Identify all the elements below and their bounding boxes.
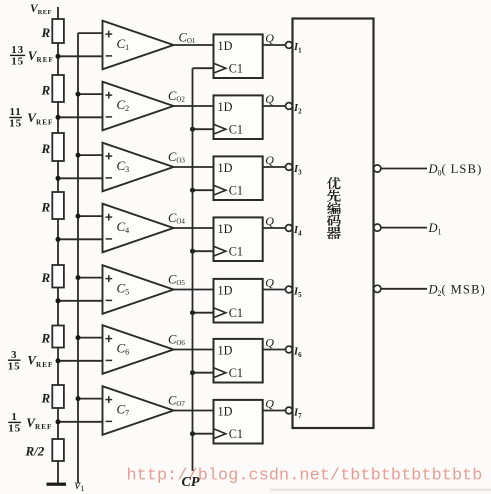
svg-text:CP: CP (182, 475, 200, 490)
svg-text:Q: Q (265, 31, 274, 45)
svg-text:15: 15 (11, 56, 24, 68)
svg-text:http://blog.csdn.net/tbtbtbtbt: http://blog.csdn.net/tbtbtbtbtbtbtb (127, 467, 483, 486)
svg-text:Q: Q (265, 214, 274, 228)
svg-text:C1: C1 (229, 123, 243, 137)
svg-text:R: R (41, 390, 51, 405)
svg-text:R: R (41, 25, 51, 40)
svg-text:D2( MSB): D2( MSB) (428, 282, 486, 298)
svg-text:C1: C1 (229, 366, 243, 380)
svg-text:1D: 1D (218, 404, 233, 418)
svg-text:15: 15 (9, 118, 22, 130)
svg-text:Q: Q (265, 276, 274, 290)
svg-text:Q: Q (265, 336, 274, 350)
svg-text:Q: Q (265, 397, 274, 411)
svg-text:C1: C1 (229, 62, 243, 76)
svg-text:1: 1 (11, 411, 17, 423)
svg-text:11: 11 (9, 106, 21, 118)
svg-text:R: R (41, 330, 51, 345)
svg-text:1D: 1D (218, 39, 233, 53)
svg-text:C1: C1 (229, 427, 243, 441)
svg-text:Q: Q (265, 153, 274, 167)
svg-text:R: R (41, 199, 51, 214)
svg-text:1D: 1D (218, 343, 233, 357)
svg-text:C1: C1 (229, 245, 243, 259)
svg-text:D0( LSB): D0( LSB) (428, 162, 483, 178)
svg-text:1D: 1D (218, 161, 233, 175)
svg-text:C1: C1 (229, 184, 243, 198)
svg-text:1D: 1D (218, 283, 233, 297)
svg-text:Q: Q (265, 92, 274, 106)
svg-text:R: R (41, 141, 51, 156)
svg-text:R/2: R/2 (25, 444, 45, 459)
svg-text:1D: 1D (218, 100, 233, 114)
svg-text:C1: C1 (229, 306, 243, 320)
svg-text:1D: 1D (218, 222, 233, 236)
svg-text:R: R (41, 270, 51, 285)
svg-text:15: 15 (8, 423, 21, 435)
svg-text:15: 15 (8, 360, 21, 372)
svg-text:13: 13 (11, 44, 24, 56)
svg-text:R: R (41, 82, 51, 97)
svg-text:3: 3 (11, 349, 17, 361)
